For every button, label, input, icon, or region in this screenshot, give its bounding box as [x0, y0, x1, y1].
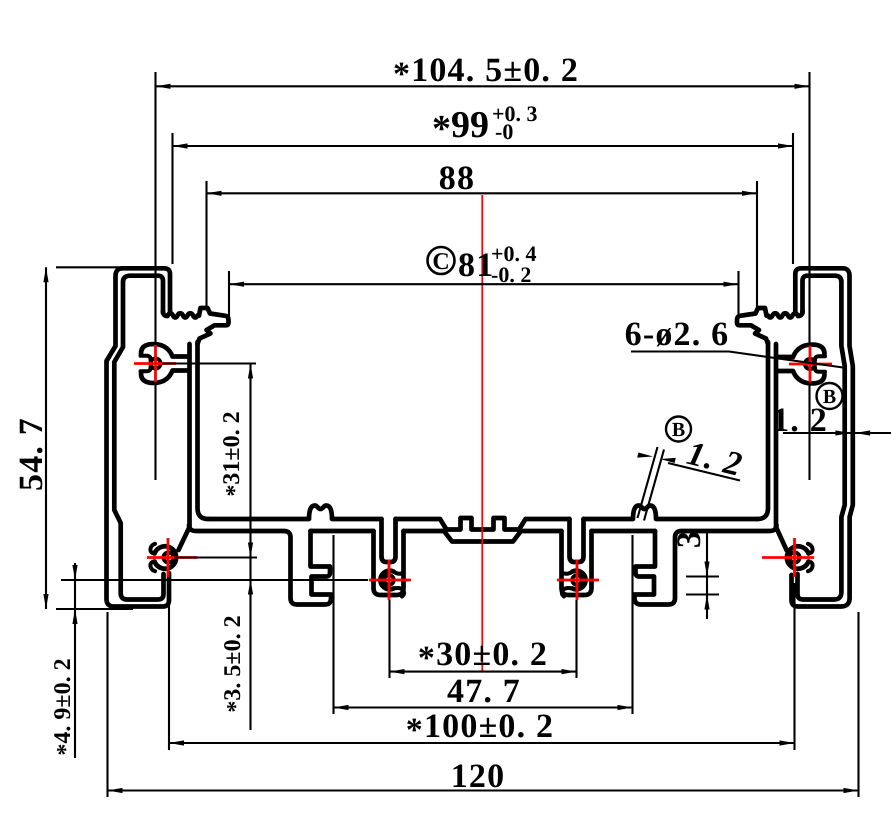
slot channel R outer	[562, 531, 592, 595]
deck top surface	[208, 506, 382, 520]
deck underside + hook A	[189, 525, 331, 605]
svg-text:C: C	[432, 249, 449, 275]
left wall outer contour	[107, 268, 171, 606]
slot channel L outer	[374, 531, 404, 595]
dim 30	[390, 669, 405, 674]
svg-text:B: B	[672, 419, 685, 441]
dim 120	[108, 612, 859, 797]
dim 1.2 right	[783, 432, 891, 434]
svg-text:B: B	[823, 386, 836, 408]
right inner skin verticals to deck	[758, 342, 769, 519]
left serrated shelf	[163, 311, 199, 318]
dim 88	[207, 191, 222, 196]
slot channel L inner walls	[382, 519, 396, 562]
svg-text:6-ø2. 6: 6-ø2. 6	[625, 316, 730, 353]
centerline	[481, 195, 483, 672]
dim 54.7	[43, 267, 48, 282]
left wall inner skin line	[114, 276, 163, 600]
dim 31	[248, 364, 253, 379]
svg-text:88: 88	[439, 160, 475, 197]
dim 1.2 right	[835, 430, 850, 435]
dim 88	[207, 181, 758, 309]
dim 99	[173, 143, 188, 148]
svg-text:54. 7: 54. 7	[13, 417, 50, 491]
svg-text:1. 2: 1. 2	[772, 402, 828, 439]
svg-text:*4. 9±0. 2: *4. 9±0. 2	[50, 658, 79, 755]
svg-text:120: 120	[451, 758, 506, 795]
dim 4.9	[61, 563, 368, 758]
crosshairs	[134, 345, 832, 600]
svg-text:-0: -0	[495, 119, 513, 144]
boss BL (screw boss)	[164, 553, 174, 563]
svg-text:*30±0. 2: *30±0. 2	[418, 636, 548, 677]
left tooth and chamber ledge	[198, 308, 229, 344]
svg-text:*99: *99	[432, 104, 489, 150]
dim 3	[686, 533, 719, 619]
dim 104.5	[156, 84, 171, 89]
dim 100	[169, 583, 795, 750]
svg-text:*3. 5±0. 2: *3. 5±0. 2	[220, 615, 249, 712]
dim 30	[390, 600, 577, 678]
dim 47.7	[334, 705, 349, 710]
right tooth and chamber ledge	[737, 308, 768, 344]
dim 104.5	[156, 72, 810, 480]
right wall inner skin line	[798, 276, 845, 600]
slot channel R inner walls	[570, 519, 584, 562]
dim 120	[108, 788, 123, 793]
dim 4.9	[72, 565, 77, 580]
right serrated shelf	[767, 311, 803, 318]
right wall outer contour	[792, 268, 853, 606]
deck underside middle	[311, 529, 374, 534]
dim 54.7	[46, 267, 133, 609]
dim 81	[229, 271, 739, 317]
boss CR	[572, 575, 582, 585]
hook B	[635, 525, 777, 605]
boss TL (screw boss)	[151, 359, 161, 369]
dim 31 / 3.5	[162, 364, 257, 731]
dim 47.7	[334, 535, 633, 714]
svg-text:81: 81	[458, 247, 494, 284]
svg-text:3: 3	[671, 530, 708, 548]
boss TR (screw boss)	[805, 359, 815, 369]
boss BR (screw boss)	[790, 553, 800, 563]
leader 6-o2.6	[631, 352, 843, 368]
dim 99	[173, 133, 794, 264]
svg-text:*104. 5±0. 2: *104. 5±0. 2	[393, 52, 579, 93]
svg-text:*100±0. 2: *100±0. 2	[406, 708, 554, 749]
dim 1.2 left	[637, 453, 653, 458]
left inner skin verticals to deck	[198, 342, 209, 519]
dim 1.2 left: slanted ext lines + dim line	[638, 447, 665, 521]
svg-text:-0. 2: -0. 2	[491, 262, 531, 287]
svg-text:*31±0. 2: *31±0. 2	[219, 411, 248, 496]
dim 100	[169, 740, 184, 745]
boss CL	[384, 575, 394, 585]
dim 3	[704, 562, 709, 577]
svg-text:47. 7: 47. 7	[447, 673, 521, 710]
dim 3.5	[248, 580, 253, 595]
dim 81	[229, 282, 244, 287]
